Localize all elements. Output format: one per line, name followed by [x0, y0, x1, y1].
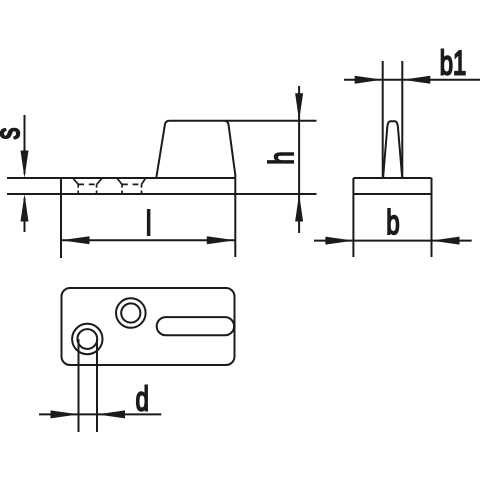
end view: right edge + b extension line — [431, 178, 433, 257]
svg-text:s: s — [0, 128, 27, 140]
dimension b1: right extension line — [401, 61, 403, 178]
top view: lower hole outer circle — [72, 324, 102, 354]
dimension d: dimension line — [39, 413, 161, 415]
top view: upper hole outer circle — [116, 298, 146, 328]
dimension h: lower arrow — [295, 194, 303, 222]
side view: boss left edge — [156, 121, 169, 178]
dimension s: line above plate — [24, 115, 26, 174]
side view: countersunk hole 2 hidden lines — [117, 179, 145, 194]
svg-text:b: b — [386, 204, 399, 242]
top view: lower hole inner circle — [77, 329, 97, 349]
dimension l: right arrow — [207, 236, 236, 244]
dimension b1: right arrow — [402, 76, 430, 84]
top view: slot — [157, 317, 234, 335]
dimension s: line below plate — [24, 198, 26, 232]
end view: boss outline — [383, 121, 402, 177]
dimension b1: left arrow — [355, 76, 383, 84]
end view: left edge + b extension line — [352, 178, 354, 257]
svg-text:b1: b1 — [440, 44, 466, 82]
dimension d: right extension line — [96, 339, 98, 432]
side view: boss top edge + h extension line — [170, 120, 317, 122]
dimension b1: dimension line — [344, 79, 480, 81]
dimension b: left arrow — [325, 237, 353, 245]
side view: countersunk hole 1 hidden lines — [73, 179, 102, 194]
end view: plate top edge — [353, 177, 431, 179]
dimension h: upper arrow — [295, 93, 303, 121]
svg-text:l: l — [146, 205, 151, 243]
side view: boss right edge + l extension line — [225, 121, 236, 257]
dimension s: lower arrow — [21, 194, 29, 222]
dimension d: right arrow — [97, 410, 125, 418]
dimension d: left arrow — [51, 410, 79, 418]
svg-text:d: d — [136, 380, 149, 418]
svg-text:h: h — [263, 151, 301, 164]
dimension b: dimension line — [314, 240, 472, 242]
dimension h: dimension line — [298, 86, 300, 233]
top view: plate outline rounded rectangle — [62, 288, 235, 365]
dimension l: left extension line — [60, 178, 62, 258]
side view: plate top edge — [7, 177, 235, 179]
top view: upper hole inner circle — [121, 303, 140, 322]
side view: plate bottom edge + h extension line — [7, 193, 317, 195]
dimension b: right arrow — [432, 237, 460, 245]
dimension b1: left extension line — [382, 61, 384, 178]
end view: plate bottom edge — [353, 193, 431, 195]
dimension d: left extension line — [78, 339, 80, 432]
dimension l: left arrow — [61, 236, 90, 244]
dimension l: dimension line — [61, 239, 235, 241]
dimension s: upper arrow — [21, 151, 29, 179]
